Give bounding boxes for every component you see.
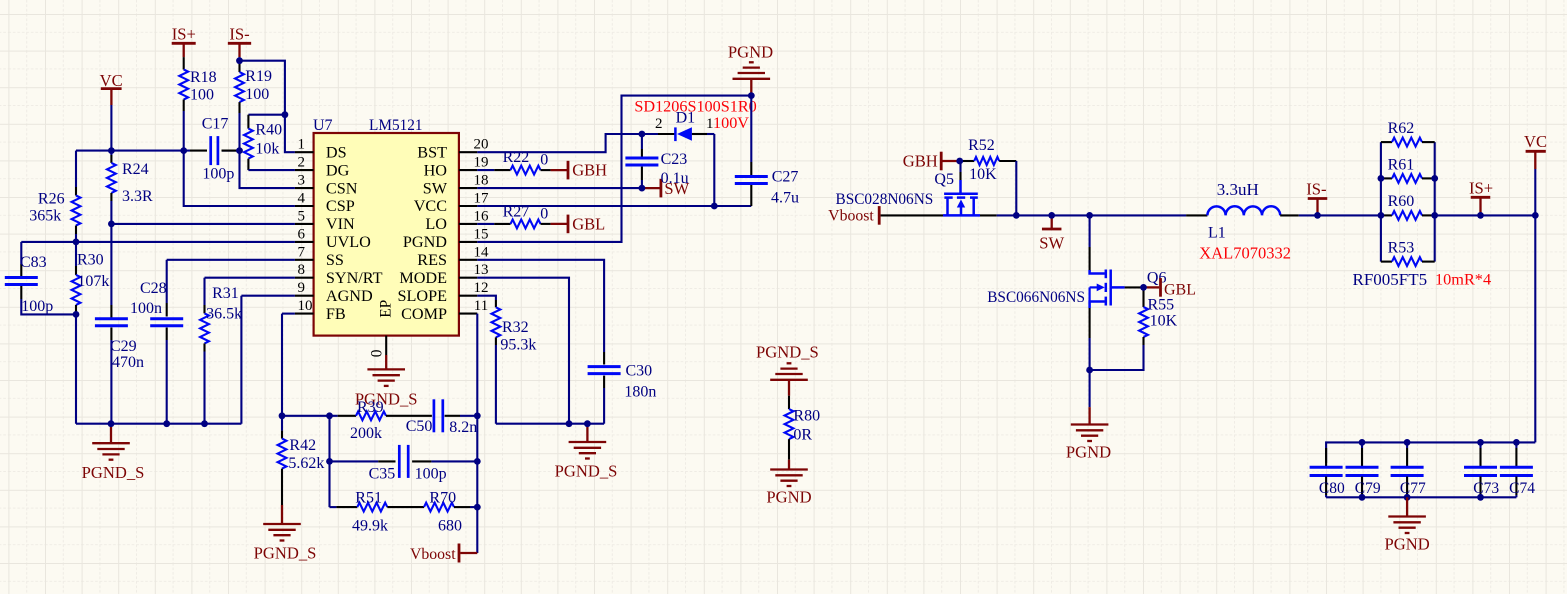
junction [1359, 494, 1366, 501]
svg-text:100p: 100p [21, 298, 53, 315]
svg-text:10k: 10k [255, 141, 279, 158]
svg-text:VC: VC [100, 71, 123, 90]
wire left ground rail [76, 423, 241, 425]
EP ground stem, net 0 [385, 336, 387, 355]
junction [1404, 494, 1411, 501]
svg-text:R22: R22 [503, 149, 530, 166]
svg-text:IS+: IS+ [1469, 179, 1493, 198]
svg-text:0: 0 [369, 349, 386, 357]
svg-text:R18: R18 [190, 69, 217, 86]
svg-text:SLOPE: SLOPE [398, 287, 448, 305]
wire SS row to pin 7 [167, 259, 295, 261]
wire C30 ground rail [496, 423, 604, 425]
svg-text:3: 3 [298, 173, 306, 189]
svg-text:R26: R26 [38, 191, 65, 208]
svg-text:6: 6 [298, 226, 306, 242]
svg-text:8: 8 [298, 262, 306, 278]
pin 18 (SW) [459, 187, 477, 189]
svg-text:0: 0 [540, 152, 548, 169]
svg-text:LO: LO [425, 215, 447, 233]
junction [1359, 439, 1366, 446]
svg-text:R31: R31 [212, 285, 239, 302]
junction [108, 147, 115, 154]
svg-text:BSC066N06NS: BSC066N06NS [987, 289, 1085, 306]
junction [326, 412, 333, 419]
svg-text:R32: R32 [502, 319, 529, 336]
svg-text:C73: C73 [1473, 480, 1499, 497]
wire AGND row to pin 9 [241, 295, 295, 297]
pin 15 (PGND) [459, 241, 477, 243]
svg-text:107k: 107k [77, 273, 109, 290]
junction [201, 420, 208, 427]
resistor R30 [75, 242, 77, 266]
resistor R32 [495, 300, 497, 307]
svg-text:4.7u: 4.7u [771, 189, 799, 206]
pin 16 (LO) [459, 223, 477, 225]
pin 14 (RES) [459, 259, 477, 261]
capacitor C27 [750, 96, 752, 162]
wire AGND drop [240, 296, 242, 424]
svg-text:100p: 100p [202, 166, 234, 183]
svg-text:17: 17 [474, 191, 490, 207]
svg-text:C79: C79 [1355, 480, 1381, 497]
power port Vboost (bottom) [460, 552, 477, 554]
capacitor C83 [20, 242, 22, 264]
wire R32 to rail [495, 345, 497, 424]
svg-text:C28: C28 [140, 280, 167, 297]
junction [566, 420, 573, 427]
svg-text:PGND: PGND [766, 488, 811, 507]
pin 11 (COMP) [459, 313, 477, 315]
svg-text:GBH: GBH [903, 152, 938, 171]
wire IS- node [238, 57, 240, 63]
junction [1013, 212, 1020, 219]
pin 8 (SYN/RT) [295, 277, 314, 279]
svg-text:IS-: IS- [1306, 180, 1326, 199]
svg-text:FB: FB [326, 305, 346, 323]
svg-text:PGND_S: PGND_S [254, 544, 317, 563]
wire CSP node to pin 4 [184, 151, 295, 206]
svg-text:CSN: CSN [326, 179, 358, 197]
inductor L1 [1186, 214, 1207, 216]
wire C50 to COMP column [460, 415, 477, 417]
capacitor C74 [1515, 442, 1517, 448]
resistor R53 [1381, 261, 1392, 263]
junction [1431, 212, 1438, 219]
svg-text:C83: C83 [20, 254, 47, 271]
svg-text:R70: R70 [429, 490, 456, 507]
svg-text:DG: DG [326, 161, 350, 179]
wire Q6 gate [1125, 286, 1144, 288]
wire R52 drain tie [1015, 161, 1017, 215]
svg-text:36.5k: 36.5k [206, 305, 242, 322]
resistor R18 [183, 57, 185, 69]
junction [639, 131, 646, 138]
svg-text:5: 5 [298, 208, 306, 224]
junction [236, 147, 243, 154]
junction [73, 239, 80, 246]
svg-text:R42: R42 [289, 437, 316, 454]
svg-text:10mR*4: 10mR*4 [1435, 269, 1491, 288]
svg-text:AGND: AGND [326, 287, 373, 305]
capacitor C23 [641, 134, 643, 149]
transistor Q6 [1090, 270, 1105, 274]
svg-text:100V: 100V [713, 114, 749, 132]
svg-text:BSC028N06NS: BSC028N06NS [836, 191, 934, 208]
svg-text:10K: 10K [1150, 312, 1178, 329]
svg-text:C77: C77 [1400, 480, 1426, 497]
junction [1477, 439, 1484, 446]
capacitor C29 [110, 224, 112, 305]
junction [108, 221, 115, 228]
resistor R31 [203, 278, 205, 305]
svg-text:16: 16 [474, 208, 490, 224]
capacitor C50 [433, 399, 436, 432]
resistor R39 [338, 415, 356, 417]
svg-text:5.62k: 5.62k [288, 455, 324, 472]
junction [474, 504, 481, 511]
junction [584, 420, 591, 427]
wire CSN node to pin 3 [240, 151, 295, 189]
junction [1404, 439, 1411, 446]
svg-text:MODE: MODE [399, 269, 447, 287]
ground PGND_S (EP) [367, 368, 405, 370]
svg-text:C17: C17 [202, 116, 229, 133]
svg-text:11: 11 [474, 298, 488, 314]
svg-text:10: 10 [298, 298, 313, 314]
svg-text:C29: C29 [110, 338, 137, 355]
wire IS- branch to pin 1 [240, 61, 295, 153]
junction [108, 420, 115, 427]
pin 2 (DG) [295, 169, 314, 171]
wire SYN/RT row to pin 8 [205, 277, 295, 279]
wire FB column [281, 314, 283, 418]
resistor R80 [788, 396, 790, 409]
junction [279, 412, 286, 419]
svg-text:680: 680 [438, 518, 462, 535]
svg-text:Vboost: Vboost [410, 546, 456, 563]
wire Vboost to Q5 [881, 214, 943, 216]
net label GBL (IC) [551, 223, 568, 225]
pin 3 (CSN) [295, 187, 314, 189]
wire R30 to ground rail [75, 313, 77, 424]
resistor R62 [1381, 141, 1392, 143]
capacitor C79 [1361, 442, 1363, 448]
svg-text:12: 12 [474, 280, 489, 296]
svg-text:10K: 10K [969, 166, 997, 183]
junction [163, 420, 170, 427]
resistor R40 [248, 114, 285, 116]
pin 4 (CSP) [295, 205, 314, 207]
resistor R60 [1381, 214, 1392, 216]
svg-text:XAL7070332: XAL7070332 [1199, 244, 1291, 263]
wire FB rail top branch [282, 415, 338, 417]
junction [1532, 212, 1539, 219]
svg-text:9: 9 [298, 280, 306, 296]
svg-text:C80: C80 [1319, 480, 1345, 497]
wire UVLO row to pin 6 [21, 241, 295, 243]
wire R18 to C17 row [183, 111, 185, 151]
pin 10 (FB) [295, 313, 314, 315]
svg-text:Q5: Q5 [934, 171, 954, 188]
svg-text:VIN: VIN [326, 215, 355, 233]
wire D1 anode to VCC row [713, 134, 715, 206]
svg-text:4: 4 [298, 191, 306, 207]
wire SLOPE row pin 12, R32 column [477, 296, 496, 300]
svg-text:SS: SS [326, 251, 344, 269]
wire R55 to source [1090, 345, 1144, 370]
junction [1140, 284, 1147, 291]
resistor bank verticals [1380, 142, 1382, 262]
svg-text:3.3R: 3.3R [122, 188, 153, 205]
capacitor C28 [166, 260, 168, 303]
svg-text:R27: R27 [503, 203, 530, 220]
svg-text:R19: R19 [245, 68, 272, 85]
capacitor C77 [1406, 442, 1408, 448]
pin 13 (MODE) [459, 277, 477, 279]
junction [1378, 212, 1385, 219]
svg-text:PGND_S: PGND_S [756, 343, 819, 362]
svg-text:Vboost: Vboost [828, 207, 874, 224]
svg-text:2: 2 [655, 116, 663, 132]
svg-text:100n: 100n [130, 300, 162, 317]
wire Q6 source [1089, 308, 1091, 338]
junction [748, 92, 755, 99]
svg-text:100: 100 [245, 86, 269, 103]
wire L1 to IS- [1299, 214, 1381, 216]
capacitor C35 [378, 460, 395, 462]
junction [1048, 212, 1055, 219]
wire RES row pin 14 [477, 260, 604, 352]
svg-text:PGND: PGND [728, 43, 773, 62]
transistor Q5 [959, 161, 961, 172]
ground PGND_S (R42) [281, 505, 283, 524]
junction [1378, 175, 1385, 182]
svg-text:VCC: VCC [414, 197, 447, 215]
diode D1 [642, 133, 658, 135]
svg-text:100: 100 [190, 86, 214, 103]
svg-text:L1: L1 [1208, 225, 1226, 242]
capacitor C80 [1325, 448, 1327, 466]
wire VIN row to pin 5 [111, 223, 295, 225]
wire R19 to C17 row [238, 113, 240, 151]
svg-text:C30: C30 [626, 363, 653, 380]
svg-text:R40: R40 [255, 122, 282, 139]
svg-text:R39: R39 [357, 399, 384, 416]
svg-text:0.1u: 0.1u [661, 170, 689, 187]
svg-text:2: 2 [298, 155, 306, 171]
svg-text:PGND_S: PGND_S [555, 461, 618, 480]
svg-text:200k: 200k [350, 425, 382, 442]
wire cap bank top rail [1326, 442, 1535, 463]
svg-text:R51: R51 [355, 490, 382, 507]
wire Q6 drain from rail [1089, 215, 1091, 247]
svg-text:GBL: GBL [572, 215, 605, 234]
svg-text:R80: R80 [793, 407, 820, 424]
svg-text:COMP: COMP [401, 305, 447, 323]
wire VC column down to cap bank [1534, 215, 1536, 442]
resistor R42 [281, 416, 283, 431]
svg-text:PGND: PGND [403, 233, 447, 251]
svg-text:15: 15 [474, 226, 489, 242]
wire C35 to COMP column [431, 460, 477, 462]
junction [1513, 439, 1520, 446]
junction [73, 311, 80, 318]
svg-text:IS-: IS- [229, 24, 249, 43]
svg-text:180n: 180n [624, 384, 656, 401]
wire FB row to pin 10 [282, 313, 295, 315]
svg-text:SYN/RT: SYN/RT [326, 269, 383, 287]
svg-text:SD1206S100S1R0: SD1206S100S1R0 [634, 98, 756, 116]
svg-text:R60: R60 [1388, 193, 1415, 210]
svg-text:SW: SW [423, 179, 448, 197]
ground PGND (cap bank) [1406, 497, 1408, 516]
svg-text:R55: R55 [1148, 296, 1175, 313]
svg-text:SW: SW [1039, 234, 1064, 253]
svg-text:VC: VC [1524, 132, 1547, 151]
pin 7 (SS) [295, 259, 314, 261]
svg-text:8.2n: 8.2n [449, 419, 477, 436]
svg-text:PGND_S: PGND_S [82, 463, 145, 482]
svg-text:RES: RES [417, 251, 447, 269]
pin 20 (BST) [459, 151, 477, 153]
pin 5 (VIN) [295, 223, 314, 225]
svg-text:DS: DS [326, 143, 347, 161]
power port SW (rail) [1051, 215, 1053, 229]
junction [1314, 212, 1321, 219]
svg-text:R30: R30 [77, 252, 104, 269]
junction [639, 185, 646, 192]
junction [474, 458, 481, 465]
svg-text:R61: R61 [1388, 156, 1415, 173]
wire bank to VC column [1435, 214, 1536, 216]
resistor R70 [424, 503, 454, 512]
resistor R22 [477, 169, 494, 171]
wire MODE row pin 13 [477, 278, 569, 424]
resistor R61 [1381, 177, 1392, 179]
svg-text:RF005FT5: RF005FT5 [1353, 270, 1428, 289]
svg-text:PGND: PGND [1385, 535, 1430, 554]
svg-text:PGND: PGND [1066, 443, 1111, 462]
junction [711, 203, 718, 210]
wire VC column [110, 105, 112, 151]
svg-text:C50: C50 [406, 418, 433, 435]
svg-text:LM5121: LM5121 [369, 117, 423, 134]
svg-text:20: 20 [474, 137, 489, 153]
svg-text:470n: 470n [112, 354, 144, 371]
wire BST route pin 20 [477, 134, 642, 152]
svg-text:R53: R53 [1388, 239, 1415, 256]
resistor R19 [238, 63, 240, 72]
capacitor C73 [1479, 442, 1481, 448]
svg-text:365k: 365k [29, 208, 61, 225]
pin 1 (DS) [295, 151, 314, 153]
wire VC row to C17/R18/R19 [76, 150, 190, 152]
ground PGND_S (left rail) [110, 424, 112, 444]
junction [474, 412, 481, 419]
capacitor C30 [603, 352, 605, 365]
junction [1431, 175, 1438, 182]
resistor R26 [75, 151, 77, 187]
pin 12 (SLOPE) [459, 295, 477, 297]
svg-text:C23: C23 [661, 151, 688, 168]
svg-text:3.3uH: 3.3uH [1217, 180, 1259, 199]
junction [956, 158, 963, 165]
resistor R24 [110, 151, 112, 155]
net label SW (IC) [642, 187, 661, 189]
wire SW row pin 18 [477, 187, 642, 189]
junction [1477, 212, 1484, 219]
wire middle branch left [328, 416, 330, 507]
svg-text:100p: 100p [415, 465, 447, 482]
capacitor C17 [190, 150, 207, 152]
svg-text:CSP: CSP [326, 197, 355, 215]
net label GBH (IC) [551, 169, 568, 171]
wire R24 to VIN row [110, 201, 112, 224]
svg-text:HO: HO [424, 161, 448, 179]
svg-text:UVLO: UVLO [326, 233, 371, 251]
wire R40 to pin 2 [248, 169, 295, 171]
pin 6 (UVLO) [295, 241, 314, 243]
svg-text:49.9k: 49.9k [352, 518, 388, 535]
svg-text:19: 19 [474, 155, 489, 171]
ground PGND (Q6) [1088, 407, 1090, 424]
svg-text:C35: C35 [369, 465, 396, 482]
svg-text:EP: EP [378, 300, 395, 318]
svg-text:0R: 0R [793, 426, 812, 443]
wire Q5 drain [980, 214, 997, 216]
svg-text:0: 0 [540, 206, 548, 223]
junction [1086, 367, 1093, 374]
junction [180, 147, 187, 154]
ground PGND (below R80) [788, 460, 790, 470]
net label GBL (Q6) [1144, 286, 1160, 288]
junction [1086, 212, 1093, 219]
resistor R55 [1142, 287, 1144, 307]
svg-text:95.3k: 95.3k [500, 337, 536, 354]
svg-text:C74: C74 [1509, 480, 1535, 497]
wire bottom branch left [330, 506, 337, 508]
svg-text:13: 13 [474, 262, 489, 278]
resistor R27 [477, 223, 494, 225]
wire PGND loop pin 15 [477, 96, 751, 242]
junction [282, 111, 289, 118]
svg-text:GBH: GBH [572, 161, 607, 180]
ground PGND_S (C30 rail) [586, 424, 588, 442]
svg-text:14: 14 [474, 244, 490, 260]
svg-text:IS+: IS+ [172, 24, 196, 43]
resistor R51 [336, 506, 357, 508]
pin 9 (AGND) [295, 295, 314, 297]
svg-text:18: 18 [474, 173, 489, 189]
wire COMP column from pin 11 [476, 314, 478, 553]
svg-text:R62: R62 [1388, 120, 1415, 137]
svg-text:U7: U7 [313, 117, 333, 134]
svg-text:7: 7 [298, 244, 306, 260]
svg-text:R52: R52 [968, 137, 995, 154]
pin 19 (HO) [459, 169, 477, 171]
junction [326, 458, 333, 465]
svg-text:BST: BST [417, 143, 447, 161]
junction [236, 57, 243, 64]
svg-text:1: 1 [298, 137, 306, 153]
resistor R52 [961, 160, 974, 162]
junction [1477, 494, 1484, 501]
wire cap bank bottom rail [1326, 496, 1516, 498]
pin 17 (VCC) [459, 205, 477, 207]
svg-text:C27: C27 [772, 169, 799, 186]
svg-text:R24: R24 [122, 161, 149, 178]
